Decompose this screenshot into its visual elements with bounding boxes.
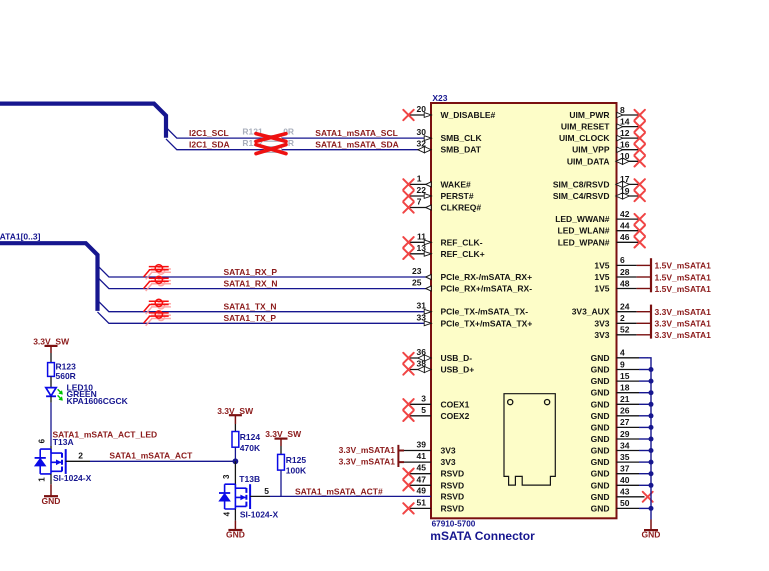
svg-text:5: 5: [421, 405, 426, 415]
svg-text:2: 2: [78, 450, 83, 460]
svg-text:3V3: 3V3: [594, 330, 609, 340]
svg-text:LED_WLAN#: LED_WLAN#: [558, 226, 610, 236]
svg-text:LED_WWAN#: LED_WWAN#: [555, 214, 610, 224]
svg-text:3: 3: [421, 393, 426, 403]
svg-text:3V3: 3V3: [441, 446, 456, 456]
pin 38 USB_D+: [403, 359, 474, 375]
svg-text:SMB_DAT: SMB_DAT: [441, 145, 482, 155]
svg-text:51: 51: [417, 497, 427, 507]
diff pair directive TX N: [146, 302, 171, 314]
svg-text:GND: GND: [226, 530, 245, 540]
svg-text:36: 36: [417, 347, 427, 357]
svg-text:COEX1: COEX1: [441, 399, 470, 409]
resistor R124: [232, 432, 239, 448]
svg-text:3V3: 3V3: [441, 457, 456, 467]
svg-text:GND: GND: [591, 503, 610, 513]
pin 16 UIM_VPP: [572, 140, 645, 155]
svg-text:WAKE#: WAKE#: [441, 179, 472, 189]
svg-text:COEX2: COEX2: [441, 411, 470, 421]
svg-text:I2C1_SCL: I2C1_SCL: [189, 128, 229, 138]
pin 48 1V5: [594, 278, 651, 293]
svg-text:SATA1_RX_N: SATA1_RX_N: [224, 278, 278, 288]
svg-text:GND: GND: [591, 480, 610, 490]
svg-text:37: 37: [620, 464, 630, 474]
svg-text:USB_D-: USB_D-: [441, 353, 473, 363]
wire T13B source to GND: [234, 509, 236, 521]
svg-text:7: 7: [417, 197, 422, 207]
svg-text:6: 6: [38, 438, 47, 443]
svg-text:PCIe_RX+/mSATA_RX-: PCIe_RX+/mSATA_RX-: [441, 284, 533, 294]
wire R125 to ACT# net: [280, 470, 282, 496]
svg-text:SATA1_mSATA_SCL: SATA1_mSATA_SCL: [315, 128, 398, 138]
svg-text:26: 26: [620, 406, 630, 416]
svg-text:24: 24: [620, 302, 630, 312]
svg-text:REF_CLK-: REF_CLK-: [441, 237, 483, 247]
svg-text:11: 11: [417, 231, 426, 241]
svg-text:SMB_CLK: SMB_CLK: [441, 133, 483, 143]
svg-text:29: 29: [620, 429, 630, 439]
svg-text:48: 48: [620, 278, 630, 288]
pin 18 GND: [591, 383, 654, 398]
svg-text:UIM_VPP: UIM_VPP: [572, 145, 610, 155]
pin 15 GND: [591, 371, 654, 386]
svg-text:18: 18: [620, 383, 630, 393]
svg-text:33: 33: [417, 312, 427, 322]
svg-text:SI-1024-X: SI-1024-X: [240, 510, 279, 520]
power port 3.3V_SW (R124): [229, 415, 242, 424]
power port 3.3V_SW (R123): [45, 346, 58, 353]
svg-text:GND: GND: [591, 399, 610, 409]
wire SATA1 RX P: [98, 266, 432, 277]
svg-text:SATA1_RX_P: SATA1_RX_P: [224, 267, 278, 277]
svg-text:21: 21: [620, 394, 630, 404]
wire power to R124: [234, 424, 236, 432]
svg-text:RSVD: RSVD: [441, 469, 465, 479]
pin 27 GND: [591, 417, 654, 432]
svg-text:2: 2: [620, 313, 625, 323]
pin 49 RSVD: [417, 485, 465, 501]
wire R124 to junction: [234, 447, 236, 461]
transistor T13B: [219, 484, 250, 509]
svg-text:PCIe_TX+/mSATA_TX+: PCIe_TX+/mSATA_TX+: [441, 318, 533, 328]
svg-text:1V5: 1V5: [594, 272, 609, 282]
ground symbol T13B: [226, 530, 245, 540]
power port 1V5 bar: [650, 258, 652, 292]
svg-text:100K: 100K: [286, 466, 307, 476]
pin 3 COEX1: [403, 393, 469, 409]
pin 47 RSVD: [403, 474, 464, 490]
svg-text:PCIe_RX-/mSATA_RX+: PCIe_RX-/mSATA_RX+: [441, 272, 533, 282]
pin 36 USB_D-: [403, 347, 472, 363]
pin 13 REF_CLK+: [403, 243, 484, 259]
pin 1 WAKE#: [403, 173, 471, 189]
svg-text:SATA1_TX_N: SATA1_TX_N: [224, 302, 277, 312]
pin 31 PCIe_TX-/mSATA_TX-: [417, 301, 529, 317]
svg-text:50: 50: [620, 498, 630, 508]
pin 30 SMB_CLK: [417, 127, 483, 143]
wire T13A source to GND: [50, 474, 52, 484]
svg-text:6: 6: [620, 255, 625, 265]
svg-text:R125: R125: [286, 455, 307, 465]
svg-text:17: 17: [620, 174, 630, 184]
svg-text:49: 49: [417, 485, 427, 495]
svg-text:15: 15: [620, 371, 630, 381]
svg-text:1: 1: [417, 173, 422, 183]
svg-text:3.3V_SW: 3.3V_SW: [265, 429, 302, 439]
svg-text:38: 38: [417, 359, 427, 369]
svg-text:KPA1606CGCK: KPA1606CGCK: [67, 396, 129, 406]
pin 52 3V3: [594, 325, 651, 340]
svg-text:X23: X23: [432, 93, 447, 103]
wire junction to T13B drain: [234, 461, 236, 488]
pin 29 GND: [591, 429, 654, 444]
pin 37 GND: [591, 464, 654, 479]
pin 32 SMB_DAT: [417, 139, 482, 155]
svg-text:GND: GND: [591, 492, 610, 502]
svg-text:3: 3: [222, 474, 231, 479]
pin 23 PCIe_RX-/mSATA_RX+: [412, 266, 532, 282]
svg-text:SIM_C4/RSVD: SIM_C4/RSVD: [553, 191, 610, 201]
svg-text:22: 22: [417, 185, 427, 195]
svg-text:GND: GND: [591, 388, 610, 398]
bus SATA1[0..3]: [0, 243, 98, 311]
svg-text:1V5: 1V5: [594, 284, 609, 294]
pin 25 PCIe_RX+/mSATA_RX-: [412, 278, 532, 294]
svg-text:67910-5700: 67910-5700: [432, 520, 476, 529]
svg-text:47: 47: [417, 474, 427, 484]
pin 10 UIM_DATA: [567, 151, 645, 166]
wire SATA1_mSATA_ACT: [90, 460, 235, 462]
svg-text:31: 31: [417, 301, 427, 311]
pin 19 SIM_C4/RSVD: [553, 186, 645, 201]
svg-text:R124: R124: [240, 432, 261, 442]
pin 4 GND: [591, 348, 648, 363]
DNP cross over R121: [256, 134, 286, 142]
svg-text:W_DISABLE#: W_DISABLE#: [441, 110, 496, 120]
pin 28 1V5: [594, 267, 651, 282]
svg-text:3.3V_SW: 3.3V_SW: [33, 336, 70, 346]
svg-text:USB_D+: USB_D+: [441, 365, 475, 375]
pin 24 3V3_AUX: [572, 302, 651, 317]
diff pair directive RX N: [146, 279, 171, 291]
svg-text:14: 14: [620, 116, 630, 126]
svg-text:34: 34: [620, 440, 630, 450]
power wires 3.3V_mSATA1 to pins 39/41: [398, 445, 404, 467]
svg-text:SATA1_mSATA_SDA: SATA1_mSATA_SDA: [315, 140, 398, 150]
svg-text:1V5: 1V5: [594, 260, 609, 270]
svg-text:23: 23: [412, 266, 422, 276]
wire power to R123: [50, 353, 52, 363]
bus I2C top-left: [0, 104, 166, 138]
svg-text:28: 28: [620, 267, 630, 277]
pin 7 CLKREQ#: [403, 197, 481, 213]
pin 46 LED_WPAN#: [558, 232, 645, 247]
resistor R121 0R (DNP): [242, 127, 294, 142]
svg-text:GND: GND: [591, 434, 610, 444]
svg-text:SIM_C8/RSVD: SIM_C8/RSVD: [553, 179, 610, 189]
svg-text:13: 13: [417, 243, 427, 253]
ground symbol T13A: [42, 496, 61, 506]
pin 9 GND: [591, 359, 654, 374]
svg-text:T13A: T13A: [53, 437, 74, 447]
svg-text:GND: GND: [591, 365, 610, 375]
pin 33 PCIe_TX+/mSATA_TX+: [417, 312, 533, 328]
svg-text:GND: GND: [591, 422, 610, 432]
svg-text:3.3V_mSATA1: 3.3V_mSATA1: [655, 330, 712, 340]
GND rail right: [647, 358, 651, 520]
svg-text:UIM_RESET: UIM_RESET: [561, 122, 610, 132]
ground symbol right rail: [642, 530, 661, 540]
svg-text:1.5V_mSATA1: 1.5V_mSATA1: [655, 284, 712, 294]
svg-text:GND: GND: [591, 457, 610, 467]
diff pair directive RX P: [146, 267, 171, 279]
svg-text:8: 8: [620, 105, 625, 115]
pin 40 GND: [591, 475, 654, 490]
pin 43 GND: [591, 487, 653, 502]
pin 44 LED_WLAN#: [558, 221, 645, 236]
pin 5 COEX2: [403, 405, 469, 421]
svg-text:mSATA Connector: mSATA Connector: [430, 529, 535, 543]
card mounting hole right: [545, 400, 550, 405]
wire SATA1_mSATA_ACT#: [270, 495, 431, 497]
svg-text:52: 52: [620, 325, 630, 335]
svg-text:3V3: 3V3: [594, 318, 609, 328]
wire I2C1_SDA: [166, 139, 431, 150]
wire SATA1 TX N: [98, 300, 432, 311]
resistor R122 0R (DNP): [242, 138, 294, 153]
svg-text:5: 5: [264, 486, 269, 496]
resistor R125: [278, 454, 285, 470]
svg-text:1.5V_mSATA1: 1.5V_mSATA1: [655, 272, 712, 282]
svg-text:39: 39: [417, 440, 427, 450]
svg-text:12: 12: [620, 128, 630, 138]
pin 12 UIM_CLOCK: [559, 128, 645, 143]
power port 3.3V_SW (R125): [275, 439, 288, 446]
pin 34 GND: [591, 440, 654, 455]
svg-text:PCIe_TX-/mSATA_TX-: PCIe_TX-/mSATA_TX-: [441, 307, 529, 317]
pin 6 1V5: [594, 255, 651, 270]
svg-text:3.3V_SW: 3.3V_SW: [217, 406, 254, 416]
svg-text:GND: GND: [591, 469, 610, 479]
svg-text:25: 25: [412, 278, 422, 288]
svg-text:10: 10: [620, 151, 630, 161]
svg-text:1: 1: [38, 477, 47, 482]
svg-text:SATA1_TX_P: SATA1_TX_P: [224, 313, 277, 323]
junction dot SATA1_mSATA_ACT: [233, 458, 239, 464]
power port 3V3 bar: [650, 305, 652, 339]
svg-text:1.5V_mSATA1: 1.5V_mSATA1: [655, 261, 712, 271]
pin 11 REF_CLK-: [403, 231, 482, 247]
pin 2 3V3: [594, 313, 651, 328]
svg-text:3.3V_mSATA1: 3.3V_mSATA1: [339, 445, 396, 455]
svg-text:46: 46: [620, 232, 630, 242]
svg-text:GND: GND: [642, 530, 661, 540]
pin 20 W_DISABLE#: [403, 104, 495, 120]
pin 45 RSVD: [403, 463, 464, 479]
svg-text:44: 44: [620, 221, 630, 231]
pin 35 GND: [591, 452, 654, 467]
svg-text:4: 4: [222, 511, 231, 516]
svg-text:35: 35: [620, 452, 630, 462]
svg-text:RSVD: RSVD: [441, 480, 465, 490]
DNP cross over R122: [256, 145, 286, 154]
wire power to R125: [280, 446, 282, 454]
svg-text:SATA1[0..3]: SATA1[0..3]: [0, 232, 41, 242]
pin 39 3V3: [403, 440, 456, 456]
svg-text:9: 9: [620, 359, 625, 369]
svg-text:RSVD: RSVD: [441, 491, 465, 501]
svg-text:3.3V_mSATA1: 3.3V_mSATA1: [655, 307, 712, 317]
connector X23 body: [431, 103, 617, 518]
pin 14 UIM_RESET: [561, 116, 645, 131]
svg-text:GND: GND: [591, 446, 610, 456]
svg-text:REF_CLK+: REF_CLK+: [441, 249, 485, 259]
svg-text:CLKREQ#: CLKREQ#: [441, 203, 482, 213]
pin 41 3V3: [403, 451, 456, 467]
svg-text:3V3_AUX: 3V3_AUX: [572, 307, 610, 317]
resistor R123: [48, 363, 55, 377]
svg-text:19: 19: [620, 186, 630, 196]
svg-text:470K: 470K: [240, 443, 261, 453]
transistor T13A: [35, 449, 66, 474]
pin number 5: [250, 495, 270, 497]
diff pair directive TX P: [146, 313, 171, 325]
svg-text:I2C1_SDA: I2C1_SDA: [189, 140, 230, 150]
svg-text:43: 43: [620, 487, 630, 497]
LED LED10: [46, 388, 63, 401]
svg-text:T13B: T13B: [239, 474, 260, 484]
svg-text:27: 27: [620, 417, 630, 427]
svg-text:GND: GND: [591, 376, 610, 386]
svg-text:32: 32: [417, 139, 427, 149]
svg-text:SATA1_mSATA_ACT#: SATA1_mSATA_ACT#: [295, 486, 383, 496]
mSATA card outline drawing: [504, 394, 555, 485]
svg-text:42: 42: [620, 209, 630, 219]
pin 51 RSVD: [403, 497, 464, 513]
svg-text:PERST#: PERST#: [441, 191, 474, 201]
svg-text:RSVD: RSVD: [441, 503, 465, 513]
pin 21 GND: [591, 394, 654, 409]
svg-text:4: 4: [620, 348, 625, 358]
card mounting hole left: [508, 400, 513, 405]
svg-text:40: 40: [620, 475, 630, 485]
pin 42 LED_WWAN#: [555, 209, 645, 224]
svg-text:LED_WPAN#: LED_WPAN#: [558, 237, 610, 247]
wire R123 to LED10: [50, 376, 52, 387]
svg-text:GND: GND: [42, 496, 61, 506]
svg-text:SATA1_mSATA_ACT: SATA1_mSATA_ACT: [109, 450, 193, 460]
svg-text:560R: 560R: [56, 371, 76, 381]
svg-text:3.3V_mSATA1: 3.3V_mSATA1: [655, 319, 712, 329]
svg-text:20: 20: [417, 104, 427, 114]
svg-text:SI-1024-X: SI-1024-X: [53, 473, 92, 483]
wire SATA1 RX N: [98, 277, 432, 288]
pin 17 SIM_C8/RSVD: [553, 174, 645, 189]
svg-text:45: 45: [417, 463, 427, 473]
svg-text:UIM_DATA: UIM_DATA: [567, 156, 610, 166]
svg-text:GND: GND: [591, 411, 610, 421]
svg-text:41: 41: [417, 451, 427, 461]
svg-text:UIM_PWR: UIM_PWR: [569, 110, 609, 120]
wire SATA1 TX P: [98, 312, 432, 323]
pin 26 GND: [591, 406, 654, 421]
svg-text:UIM_CLOCK: UIM_CLOCK: [559, 133, 610, 143]
svg-text:16: 16: [620, 140, 630, 150]
wire LED10 to T13A drain: [50, 396, 52, 402]
svg-text:30: 30: [417, 127, 427, 137]
pin 50 GND: [591, 498, 654, 513]
pin number 2: [66, 460, 90, 462]
wire I2C1_SCL: [166, 127, 431, 138]
svg-text:3.3V_mSATA1: 3.3V_mSATA1: [339, 457, 396, 467]
svg-text:GND: GND: [591, 353, 610, 363]
pin 22 PERST#: [403, 185, 474, 201]
pin 8 UIM_PWR: [569, 105, 645, 120]
